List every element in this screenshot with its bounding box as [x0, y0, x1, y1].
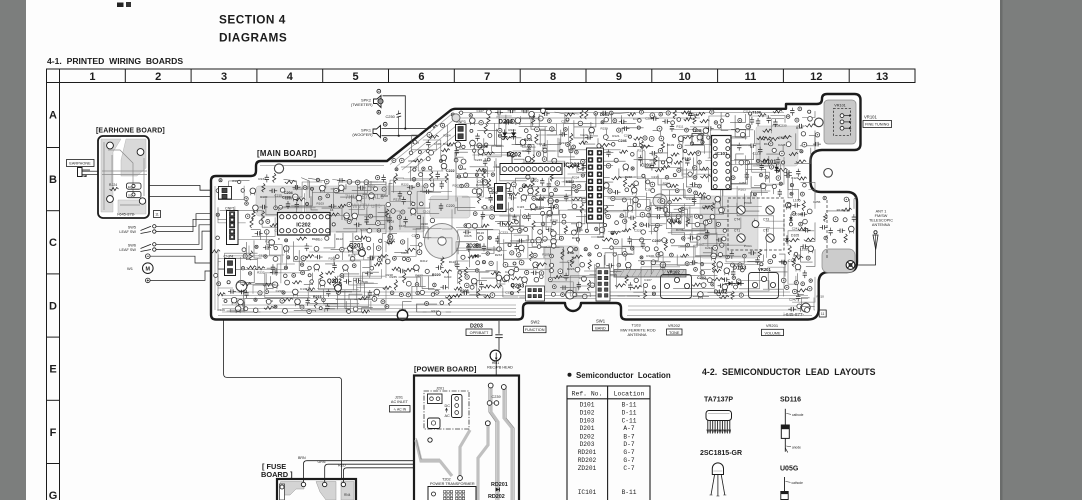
resistor [447, 143, 455, 146]
wire trace [788, 173, 792, 198]
pad [662, 238, 667, 243]
transistor [343, 265, 349, 271]
capacitor [802, 244, 804, 248]
pad [843, 218, 847, 222]
wire trace [607, 129, 618, 141]
pad [707, 196, 711, 200]
pad [472, 189, 477, 194]
capacitor [332, 264, 336, 266]
svg-text:11: 11 [155, 213, 159, 217]
pad [495, 184, 499, 188]
svg-text:REC/PB HEAD: REC/PB HEAD [487, 366, 513, 370]
capacitor [750, 251, 752, 255]
pad [642, 174, 645, 177]
wire trace [218, 249, 233, 269]
pad [677, 118, 681, 122]
wire trace [500, 207, 552, 227]
wire trace [695, 158, 729, 175]
transistor [717, 262, 723, 268]
svg-text:D102: D102 [714, 290, 727, 296]
capacitor [641, 243, 645, 245]
resistor [492, 285, 502, 288]
resistor [796, 160, 806, 163]
wire trace [418, 159, 443, 171]
pad [301, 271, 305, 275]
capacitor [512, 216, 516, 218]
capacitor [482, 245, 486, 247]
resistor [671, 153, 679, 156]
resistor [338, 204, 346, 207]
wire trace [589, 200, 632, 211]
pad [526, 175, 530, 179]
wire trace [423, 171, 441, 193]
capacitor [750, 144, 752, 148]
capacitor [271, 189, 273, 193]
svg-text:R214: R214 [637, 149, 645, 153]
transistor [808, 246, 814, 252]
resistor [537, 197, 545, 200]
wire trace [336, 225, 357, 232]
capacitor [587, 135, 589, 139]
wire trace [403, 179, 448, 200]
wire trace [677, 255, 685, 266]
pad [716, 222, 720, 226]
capacitor [436, 173, 440, 175]
wire trace [356, 288, 386, 309]
resistor [454, 287, 462, 290]
svg-text:C113: C113 [788, 259, 796, 263]
svg-text:SW5: SW5 [128, 226, 136, 230]
wire main board to fuse board [224, 321, 342, 480]
resistor [761, 159, 770, 162]
pad [726, 255, 730, 259]
pad [572, 145, 576, 149]
svg-text:C257: C257 [739, 181, 747, 185]
svg-text:D203: D203 [580, 441, 595, 448]
svg-text:Semiconductor Location: Semiconductor Location [576, 371, 671, 380]
capacitor [542, 145, 546, 147]
ground-plane patch (right tuner area) [700, 196, 758, 258]
capacitor [685, 160, 689, 162]
pad [815, 133, 819, 137]
svg-text:BOARD ]: BOARD ] [261, 470, 293, 479]
earphone board mounting holes [107, 142, 114, 149]
transistor [525, 156, 531, 162]
resistor [532, 115, 535, 125]
capacitor [265, 245, 267, 249]
pad [561, 293, 565, 297]
pad [265, 230, 270, 235]
pad [503, 262, 508, 267]
wire trace [645, 157, 659, 168]
pad [542, 157, 547, 162]
capacitor [650, 164, 654, 166]
wire trace [565, 113, 579, 114]
pad [718, 125, 721, 128]
pad [482, 261, 485, 264]
pad [776, 169, 780, 173]
pad [422, 167, 425, 170]
svg-text:C238: C238 [360, 227, 368, 231]
wire trace [721, 112, 728, 130]
wire trace [417, 276, 434, 291]
pad [710, 215, 715, 220]
svg-text:R224: R224 [109, 183, 117, 187]
resistor [632, 285, 641, 288]
resistor [640, 140, 643, 148]
wire trace [627, 141, 639, 146]
svg-text:B-11: B-11 [622, 402, 637, 409]
wire trace [363, 272, 379, 282]
pad [614, 158, 618, 162]
pad [524, 129, 528, 133]
resistor [306, 288, 315, 291]
svg-text:CT1: CT1 [734, 229, 740, 233]
transistor [320, 185, 326, 191]
wire trace [345, 290, 351, 308]
svg-text:D202: D202 [580, 433, 595, 440]
wire trace [642, 146, 653, 164]
transistor [295, 299, 301, 305]
pad [640, 212, 645, 217]
ground pad bottom-right with screw [822, 249, 855, 273]
pad [433, 283, 437, 287]
pad [306, 202, 309, 205]
wire trace [550, 130, 561, 145]
pad [303, 186, 307, 190]
pad [743, 254, 747, 258]
wire trace [528, 247, 550, 256]
transistor [293, 289, 299, 295]
wire trace [576, 182, 646, 197]
wire trace [456, 150, 482, 178]
pad [440, 159, 443, 162]
resistor [655, 168, 664, 171]
pad [280, 299, 285, 304]
grid ruler band [47, 69, 916, 83]
resistor [405, 248, 415, 251]
wire trace [638, 253, 658, 261]
capacitor [305, 300, 309, 302]
capacitor [664, 119, 666, 123]
wire trace [560, 262, 569, 276]
capacitor [602, 111, 604, 115]
pad [417, 216, 420, 219]
capacitor [339, 178, 341, 182]
transistor [715, 196, 721, 202]
wire trace [349, 182, 365, 210]
pad [574, 247, 577, 250]
capacitor [463, 291, 465, 295]
resistor [628, 184, 639, 187]
svg-text:D201: D201 [580, 425, 595, 432]
wire trace [457, 164, 497, 187]
wire trace [650, 257, 700, 270]
pad [731, 263, 735, 267]
wire trace [306, 261, 361, 285]
switch SW2 (on board) [526, 286, 545, 301]
wire trace [671, 219, 729, 231]
pad [399, 293, 403, 297]
pad [510, 251, 514, 255]
pad [782, 161, 785, 164]
pad [386, 202, 390, 206]
svg-text:G: G [49, 490, 58, 500]
resistor [325, 271, 334, 274]
svg-text:R112: R112 [336, 237, 343, 241]
capacitor [798, 124, 800, 128]
svg-text:R225: R225 [464, 234, 472, 238]
pad [377, 229, 381, 233]
svg-text:C250: C250 [386, 114, 396, 119]
wire trace [308, 178, 326, 188]
wire trace [717, 233, 730, 256]
wire trace [353, 269, 381, 290]
resistor [788, 245, 791, 254]
transistor [320, 280, 326, 286]
resistor [445, 295, 455, 298]
capacitor [331, 204, 333, 208]
pad [552, 158, 557, 163]
svg-text:D103: D103 [733, 266, 746, 272]
wire trace [448, 271, 452, 290]
pad [486, 252, 489, 255]
pad [469, 114, 472, 117]
main board inner echo traces [215, 113, 812, 316]
pad [524, 227, 528, 231]
pad [241, 267, 244, 270]
transistor [530, 204, 536, 210]
wire trace [328, 292, 368, 306]
pad [801, 282, 805, 286]
svg-text:LEAF SW: LEAF SW [119, 230, 136, 234]
svg-text:SW2: SW2 [531, 319, 541, 324]
pad [676, 214, 680, 218]
transistor [522, 277, 528, 283]
svg-text:R201: R201 [524, 138, 533, 142]
resistor [674, 161, 682, 164]
svg-text:AC INLET: AC INLET [391, 400, 409, 404]
pad [665, 212, 670, 217]
svg-text:13: 13 [876, 71, 888, 83]
svg-text:D-7: D-7 [623, 441, 634, 448]
transistor [551, 238, 557, 244]
capacitor [345, 279, 347, 283]
pad [571, 230, 576, 235]
capacitor [510, 196, 512, 200]
pad [789, 223, 792, 226]
svg-text:C220: C220 [489, 191, 498, 195]
capacitor [294, 185, 296, 189]
pad [799, 222, 803, 226]
pad [794, 281, 798, 285]
pad [541, 222, 545, 226]
svg-text:RED: RED [338, 464, 346, 468]
pad [734, 285, 738, 289]
capacitor [651, 151, 653, 155]
resistor [654, 155, 657, 165]
resistor [403, 272, 406, 283]
wire trace [293, 181, 308, 189]
wire trace [671, 246, 686, 251]
resistor [250, 218, 253, 228]
svg-text:2SC1815-GR: 2SC1815-GR [700, 450, 742, 457]
svg-text:C101: C101 [423, 210, 431, 214]
pad [562, 220, 566, 224]
wire trace [284, 179, 297, 190]
wire trace [324, 290, 339, 304]
IC IC201 [500, 164, 562, 175]
wire trace [693, 295, 709, 298]
pad [498, 128, 502, 132]
resistor [789, 152, 798, 155]
wire trace [532, 229, 547, 246]
resistor [628, 113, 636, 116]
pad [501, 207, 505, 211]
transistor [441, 163, 447, 169]
resistor [579, 141, 588, 144]
capacitor [657, 206, 659, 210]
pad [631, 167, 634, 170]
pad [720, 119, 723, 122]
wire trace [537, 124, 593, 136]
pad [746, 124, 751, 129]
pad [833, 217, 838, 222]
resistor [441, 257, 444, 266]
pad [216, 189, 220, 193]
pad [785, 285, 789, 289]
pad [647, 213, 651, 217]
svg-text:SQ: SQ [128, 193, 133, 197]
resistor [661, 142, 664, 151]
transistor [568, 247, 574, 253]
transistor [724, 268, 730, 274]
wire trace [417, 192, 452, 214]
wire trace [634, 177, 646, 190]
resistor [264, 306, 274, 309]
wire trace [412, 135, 421, 152]
capacitor [801, 212, 803, 216]
resistor [441, 270, 451, 273]
resistor [383, 286, 392, 289]
wire trace [363, 182, 386, 194]
wire trace [394, 178, 404, 193]
capacitor [561, 132, 563, 136]
wire trace [403, 301, 412, 312]
pad [367, 247, 370, 250]
wire trace [611, 113, 629, 124]
capacitor [688, 112, 692, 114]
resistor [414, 159, 423, 162]
wire trace [731, 145, 748, 152]
wire trace [496, 129, 502, 147]
pad [369, 214, 373, 218]
pad [430, 183, 434, 187]
pad [786, 115, 790, 119]
pad [694, 191, 698, 195]
svg-text:R210: R210 [536, 206, 544, 210]
pad [717, 292, 721, 296]
resistor [487, 179, 490, 190]
wire trace [753, 156, 769, 166]
wire trace [266, 198, 281, 214]
wire trace [522, 144, 571, 163]
resistor [387, 241, 395, 244]
svg-text:C124: C124 [537, 142, 545, 146]
pad [661, 161, 664, 164]
svg-text:i-645-878-: i-645-878- [117, 212, 136, 217]
pad [657, 126, 662, 131]
pad [308, 274, 311, 277]
capacitor [440, 183, 444, 185]
pad [488, 236, 491, 239]
capacitor [692, 182, 694, 186]
pad [538, 230, 543, 235]
svg-text:F101: F101 [682, 156, 692, 161]
pad [578, 121, 583, 126]
capacitor [509, 109, 511, 113]
earphone board outline [98, 136, 149, 218]
wire trace [305, 193, 350, 215]
wire trace [708, 158, 727, 167]
pad [412, 202, 415, 205]
transistor [529, 111, 535, 117]
wire trace [605, 253, 617, 266]
pad [617, 263, 621, 267]
svg-text:C239: C239 [492, 395, 501, 399]
wire trace [389, 234, 397, 246]
pad [554, 204, 558, 208]
pad [631, 153, 635, 157]
wire trace [591, 122, 598, 136]
capacitor [316, 255, 318, 259]
pad [355, 180, 360, 185]
svg-text:VR101: VR101 [864, 114, 877, 119]
svg-text:K322: K322 [566, 180, 574, 184]
pad [572, 204, 577, 209]
pad [693, 166, 697, 170]
pad [652, 292, 655, 295]
wire trace [544, 151, 556, 162]
resistor [792, 256, 803, 259]
pad [656, 252, 661, 257]
svg-text:C245: C245 [475, 158, 483, 162]
wire trace [254, 240, 262, 258]
pad [611, 231, 614, 234]
svg-text:D-11: D-11 [622, 410, 637, 417]
wire trace [641, 267, 680, 287]
wire trace [412, 286, 426, 299]
wire trace [498, 236, 519, 244]
wire trace [701, 270, 711, 280]
pad [413, 168, 416, 171]
svg-text:i-645-877-: i-645-877- [784, 312, 805, 317]
pad [379, 239, 382, 242]
pad [535, 127, 540, 132]
wire trace [661, 179, 715, 228]
pad [801, 132, 805, 136]
pad [219, 179, 222, 182]
pad [227, 281, 230, 284]
wire trace [365, 283, 374, 298]
transistor [231, 297, 237, 303]
wire trace [404, 227, 428, 240]
wire trace [801, 298, 809, 308]
transistor [536, 237, 542, 243]
pad [537, 245, 541, 249]
transistor [533, 262, 539, 268]
wire trace [364, 243, 373, 260]
